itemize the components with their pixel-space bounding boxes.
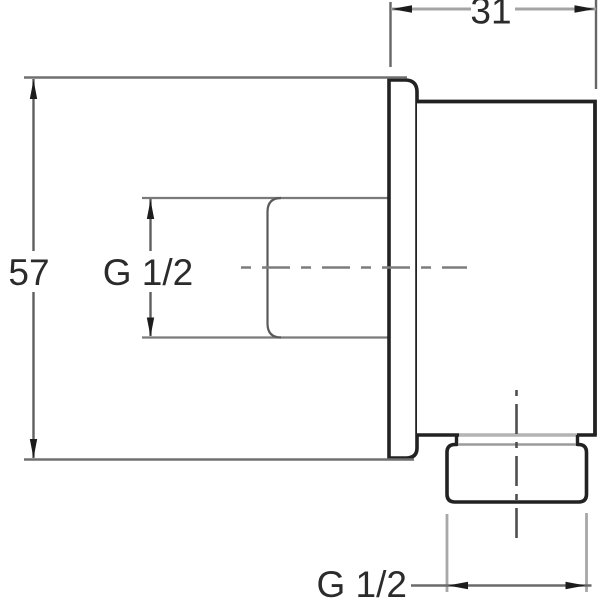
svg-text:G 1/2: G 1/2 [103, 252, 194, 293]
svg-text:G 1/2: G 1/2 [317, 564, 408, 600]
svg-text:57: 57 [8, 252, 49, 293]
svg-text:31: 31 [470, 0, 511, 32]
